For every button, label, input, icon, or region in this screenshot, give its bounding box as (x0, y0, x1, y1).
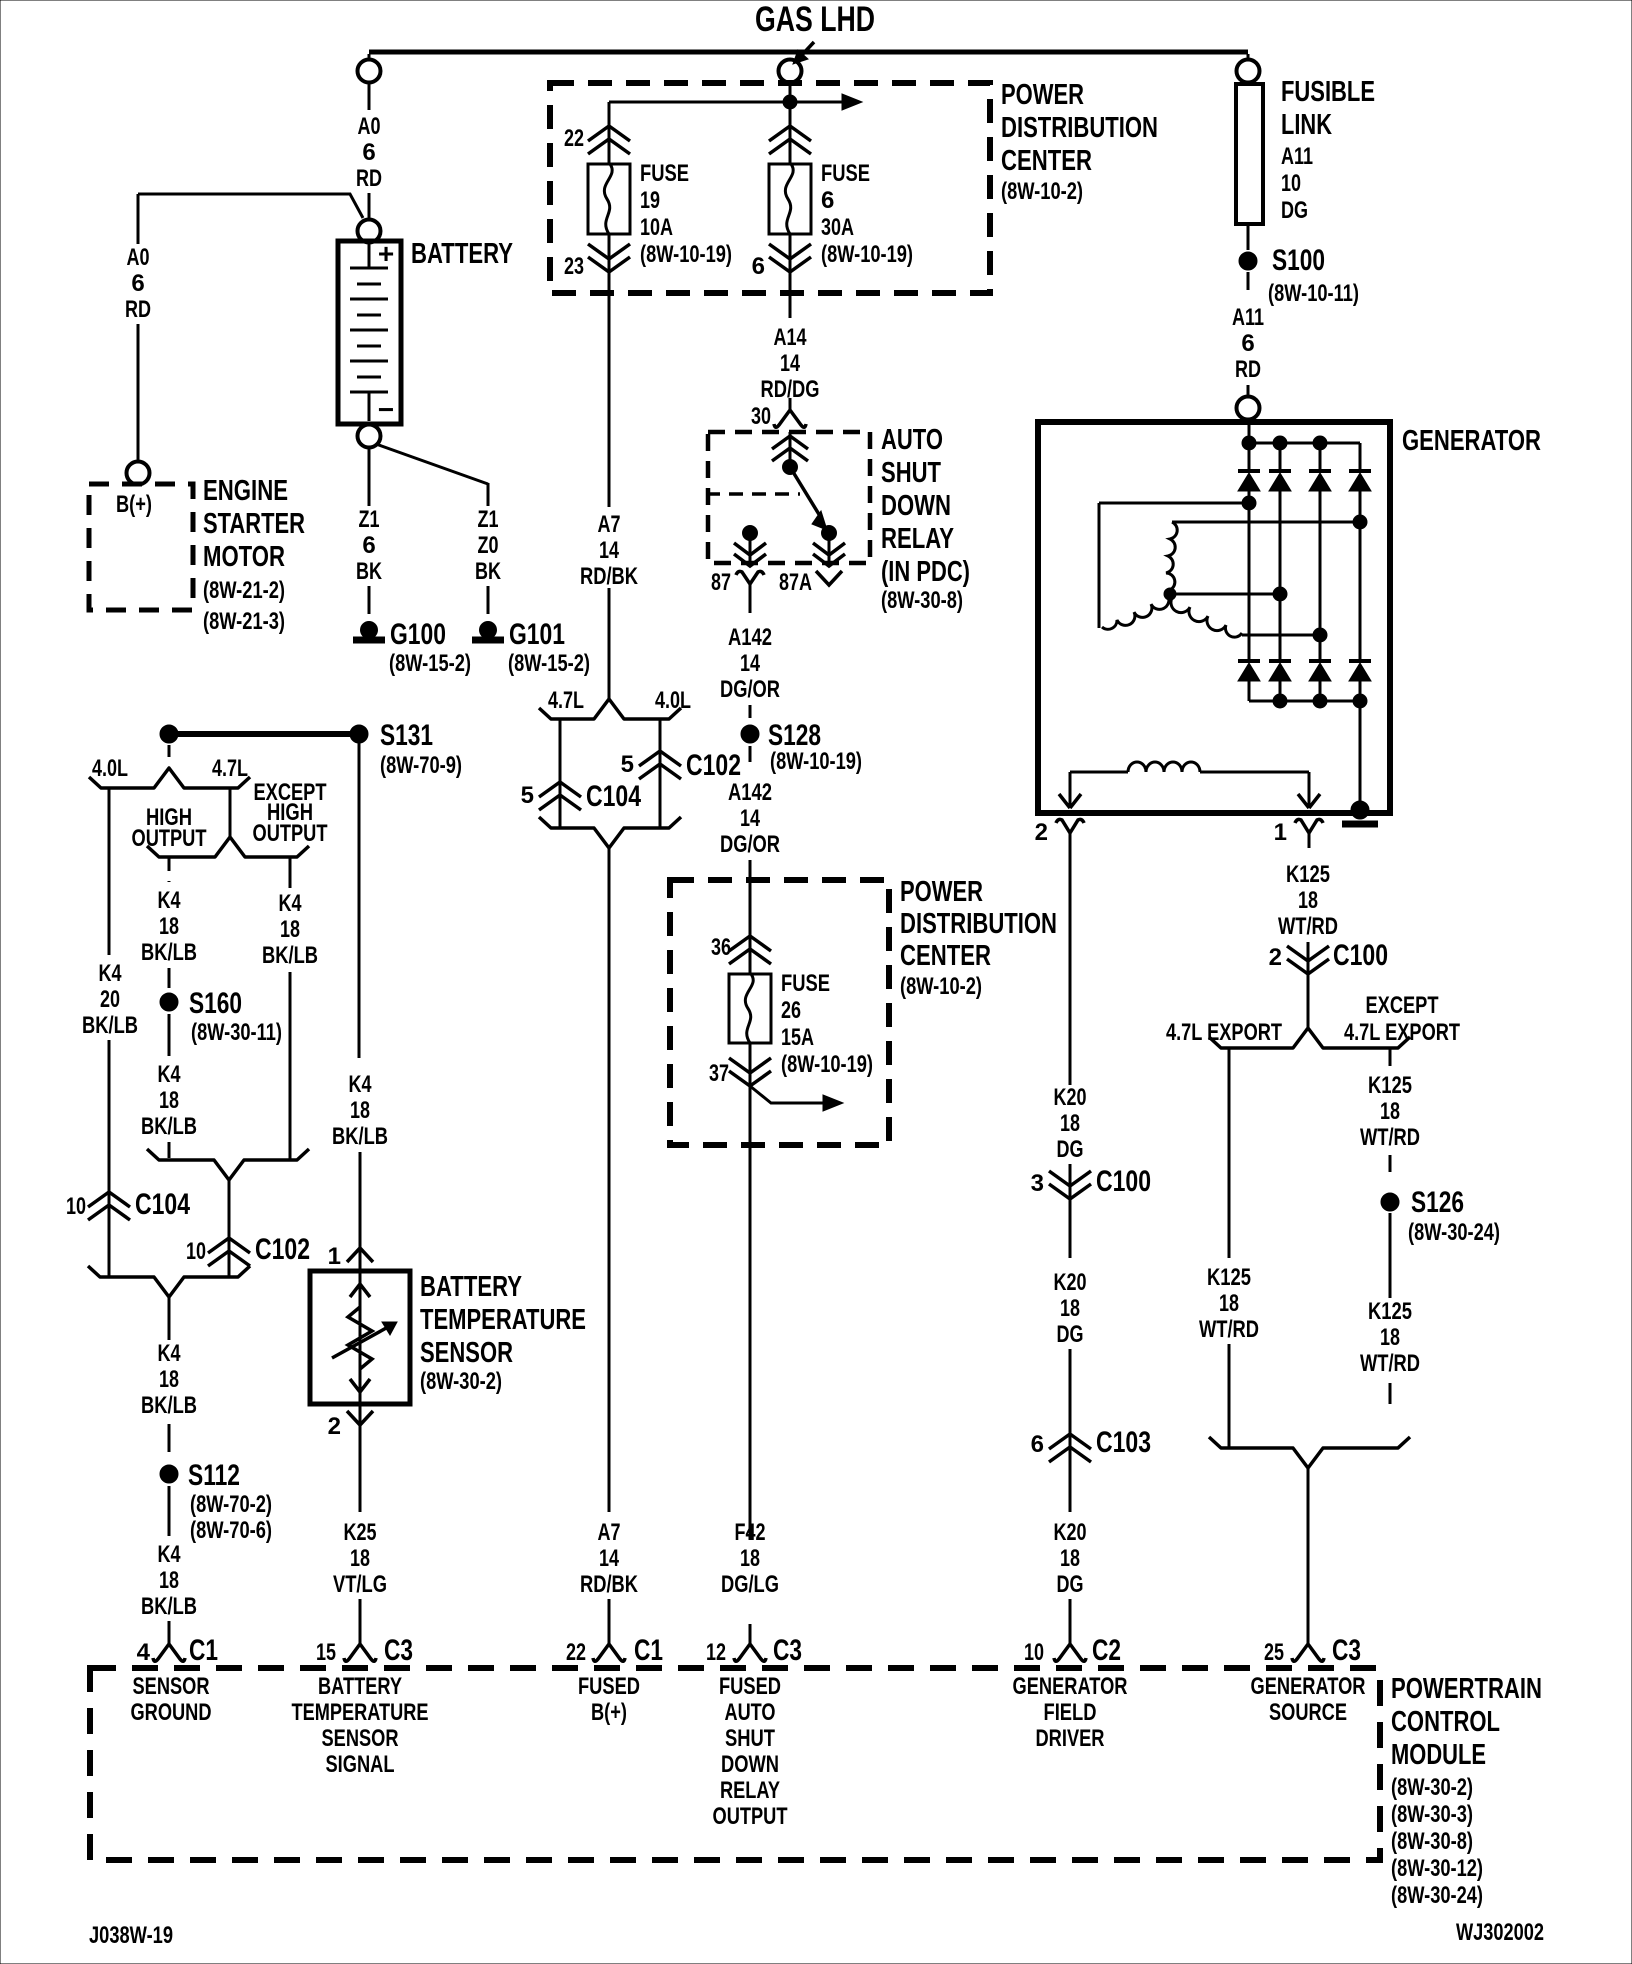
svg-text:(8W-30-2): (8W-30-2) (1391, 1774, 1473, 1801)
svg-text:SHUT: SHUT (881, 457, 941, 489)
svg-text:BATTERY: BATTERY (318, 1673, 402, 1700)
svg-text:BK/LB: BK/LB (82, 1012, 138, 1039)
svg-text:14: 14 (740, 650, 760, 677)
svg-text:OUTPUT: OUTPUT (132, 825, 207, 852)
svg-text:10A: 10A (640, 214, 673, 241)
svg-text:(IN PDC): (IN PDC) (881, 556, 970, 588)
svg-text:(8W-10-19): (8W-10-19) (781, 1051, 873, 1078)
svg-text:OUTPUT: OUTPUT (713, 1803, 788, 1830)
svg-text:18: 18 (1219, 1290, 1239, 1317)
svg-text:DG: DG (1281, 197, 1308, 224)
svg-text:14: 14 (599, 1545, 619, 1572)
svg-text:AUTO: AUTO (725, 1699, 776, 1726)
svg-text:10: 10 (186, 1238, 206, 1265)
svg-text:DG: DG (1057, 1571, 1084, 1598)
svg-text:S126: S126 (1411, 1186, 1464, 1219)
svg-text:C2: C2 (1092, 1634, 1121, 1667)
svg-text:CONTROL: CONTROL (1391, 1706, 1500, 1738)
svg-text:FUSED: FUSED (719, 1673, 781, 1700)
svg-text:A7: A7 (598, 511, 621, 538)
svg-text:SIGNAL: SIGNAL (326, 1751, 395, 1778)
svg-text:J038W-19: J038W-19 (89, 1922, 173, 1949)
svg-text:18: 18 (1380, 1324, 1400, 1351)
svg-text:C104: C104 (586, 780, 641, 813)
svg-text:C3: C3 (384, 1634, 413, 1667)
svg-text:4: 4 (137, 1639, 151, 1666)
svg-text:6: 6 (362, 532, 375, 559)
svg-text:DG/LG: DG/LG (721, 1571, 779, 1598)
svg-text:SENSOR: SENSOR (322, 1725, 399, 1752)
svg-text:(8W-30-12): (8W-30-12) (1391, 1855, 1483, 1882)
svg-text:WJ302002: WJ302002 (1456, 1919, 1544, 1946)
svg-text:STARTER: STARTER (203, 508, 305, 540)
svg-text:C3: C3 (1332, 1634, 1361, 1667)
svg-text:RD: RD (356, 165, 382, 192)
svg-text:A142: A142 (728, 624, 772, 651)
svg-text:GENERATOR: GENERATOR (1013, 1673, 1128, 1700)
svg-text:C104: C104 (135, 1188, 190, 1221)
svg-text:FUSED: FUSED (578, 1673, 640, 1700)
svg-text:(8W-10-2): (8W-10-2) (1001, 178, 1083, 205)
svg-text:BK/LB: BK/LB (141, 1392, 197, 1419)
svg-text:(8W-70-2): (8W-70-2) (190, 1491, 272, 1518)
svg-text:DOWN: DOWN (721, 1751, 779, 1778)
svg-text:(8W-30-11): (8W-30-11) (191, 1019, 282, 1046)
svg-text:18: 18 (1060, 1545, 1080, 1572)
svg-text:25: 25 (1264, 1639, 1284, 1666)
svg-text:POWER: POWER (900, 876, 983, 908)
svg-text:WT/RD: WT/RD (1360, 1124, 1420, 1151)
svg-text:C100: C100 (1333, 939, 1388, 972)
svg-text:DG: DG (1057, 1321, 1084, 1348)
svg-text:K4: K4 (279, 890, 302, 917)
svg-text:K125: K125 (1207, 1264, 1251, 1291)
svg-text:K4: K4 (349, 1071, 372, 1098)
svg-text:10: 10 (1024, 1639, 1044, 1666)
svg-text:K20: K20 (1054, 1519, 1087, 1546)
svg-text:CENTER: CENTER (1001, 145, 1092, 177)
svg-text:GAS LHD: GAS LHD (755, 0, 875, 39)
svg-text:(8W-15-2): (8W-15-2) (508, 650, 590, 677)
svg-text:A11: A11 (1232, 304, 1264, 331)
svg-text:BK/LB: BK/LB (141, 1113, 197, 1140)
svg-text:RD/BK: RD/BK (580, 1571, 639, 1598)
svg-text:(8W-10-19): (8W-10-19) (821, 241, 913, 268)
svg-text:(8W-30-8): (8W-30-8) (1391, 1828, 1473, 1855)
svg-text:4.0L: 4.0L (655, 687, 691, 714)
svg-text:K25: K25 (344, 1519, 377, 1546)
svg-text:MOTOR: MOTOR (203, 541, 285, 573)
svg-text:POWERTRAIN: POWERTRAIN (1391, 1673, 1542, 1705)
svg-text:WT/RD: WT/RD (1199, 1316, 1259, 1343)
svg-text:5: 5 (521, 782, 534, 809)
svg-text:6: 6 (821, 187, 834, 214)
svg-text:22: 22 (566, 1639, 586, 1666)
svg-text:SHUT: SHUT (725, 1725, 775, 1752)
svg-text:FIELD: FIELD (1044, 1699, 1097, 1726)
svg-text:1: 1 (328, 1243, 341, 1270)
svg-text:FUSE: FUSE (640, 160, 689, 187)
svg-text:A0: A0 (358, 113, 381, 140)
svg-text:18: 18 (350, 1545, 370, 1572)
svg-text:K125: K125 (1368, 1298, 1412, 1325)
svg-text:18: 18 (280, 916, 300, 943)
svg-text:BATTERY: BATTERY (420, 1271, 522, 1303)
svg-text:(8W-21-2): (8W-21-2) (203, 577, 285, 604)
svg-text:RD: RD (1235, 356, 1261, 383)
svg-text:Z0: Z0 (478, 532, 499, 559)
svg-text:GENERATOR: GENERATOR (1251, 1673, 1366, 1700)
svg-text:AUTO: AUTO (881, 424, 943, 456)
svg-text:18: 18 (159, 1567, 179, 1594)
svg-text:2: 2 (1269, 944, 1282, 971)
svg-text:(8W-30-24): (8W-30-24) (1391, 1882, 1483, 1909)
svg-text:S131: S131 (380, 719, 433, 752)
svg-text:(8W-10-19): (8W-10-19) (770, 748, 862, 775)
svg-text:K4: K4 (158, 1541, 181, 1568)
svg-text:Z1: Z1 (478, 506, 499, 533)
svg-text:FUSIBLE: FUSIBLE (1281, 76, 1375, 108)
svg-text:87A: 87A (779, 569, 812, 596)
svg-text:87: 87 (711, 569, 731, 596)
svg-text:19: 19 (640, 187, 660, 214)
svg-text:FUSE: FUSE (821, 160, 870, 187)
svg-text:K20: K20 (1054, 1084, 1087, 1111)
svg-text:LINK: LINK (1281, 109, 1332, 141)
svg-text:POWER: POWER (1001, 79, 1084, 111)
svg-text:12: 12 (706, 1639, 726, 1666)
svg-text:18: 18 (1060, 1295, 1080, 1322)
svg-text:14: 14 (740, 805, 760, 832)
svg-text:CENTER: CENTER (900, 940, 991, 972)
svg-text:18: 18 (740, 1545, 760, 1572)
svg-text:G101: G101 (509, 618, 565, 651)
svg-text:A14: A14 (774, 324, 807, 351)
svg-text:A11: A11 (1281, 143, 1313, 170)
svg-text:A0: A0 (127, 244, 150, 271)
svg-text:BK/LB: BK/LB (332, 1123, 388, 1150)
svg-text:DG/OR: DG/OR (720, 831, 780, 858)
svg-text:A142: A142 (728, 779, 772, 806)
svg-text:C1: C1 (634, 1634, 663, 1667)
svg-text:A7: A7 (598, 1519, 621, 1546)
svg-text:4.0L: 4.0L (92, 755, 128, 782)
svg-text:BK/LB: BK/LB (141, 1593, 197, 1620)
svg-text:(8W-30-8): (8W-30-8) (881, 587, 963, 614)
svg-text:4.7L: 4.7L (212, 755, 248, 782)
svg-text:C102: C102 (686, 749, 741, 782)
svg-text:18: 18 (159, 913, 179, 940)
svg-text:S160: S160 (189, 987, 242, 1020)
svg-text:DISTRIBUTION: DISTRIBUTION (1001, 112, 1158, 144)
svg-text:SENSOR: SENSOR (420, 1337, 513, 1369)
svg-text:VT/LG: VT/LG (333, 1571, 387, 1598)
svg-text:EXCEPT: EXCEPT (1366, 992, 1439, 1019)
svg-text:DISTRIBUTION: DISTRIBUTION (900, 908, 1057, 940)
svg-text:(8W-21-3): (8W-21-3) (203, 608, 285, 635)
svg-text:(8W-10-11): (8W-10-11) (1268, 280, 1359, 307)
svg-text:18: 18 (350, 1097, 370, 1124)
svg-text:OUTPUT: OUTPUT (253, 820, 328, 847)
svg-text:6: 6 (752, 253, 765, 280)
svg-text:2: 2 (1035, 819, 1048, 846)
svg-text:(8W-10-19): (8W-10-19) (640, 241, 732, 268)
svg-text:DG/OR: DG/OR (720, 676, 780, 703)
svg-text:18: 18 (1380, 1098, 1400, 1125)
svg-text:6: 6 (1241, 330, 1254, 357)
svg-text:(8W-70-6): (8W-70-6) (190, 1517, 272, 1544)
svg-text:WT/RD: WT/RD (1278, 913, 1338, 940)
svg-text:BATTERY: BATTERY (411, 238, 513, 270)
svg-text:B(+): B(+) (591, 1699, 627, 1726)
svg-text:4.7L: 4.7L (548, 687, 584, 714)
svg-text:(8W-15-2): (8W-15-2) (389, 650, 471, 677)
svg-text:6: 6 (1031, 1431, 1044, 1458)
svg-text:ENGINE: ENGINE (203, 475, 288, 507)
svg-text:Z1: Z1 (359, 506, 380, 533)
svg-text:18: 18 (159, 1087, 179, 1114)
svg-text:MODULE: MODULE (1391, 1739, 1486, 1771)
svg-text:26: 26 (781, 997, 801, 1024)
svg-text:36: 36 (711, 934, 731, 961)
svg-text:F42: F42 (735, 1519, 766, 1546)
svg-text:K4: K4 (158, 1061, 181, 1088)
svg-text:RELAY: RELAY (881, 523, 954, 555)
svg-text:K20: K20 (1054, 1269, 1087, 1296)
svg-text:K4: K4 (158, 1340, 181, 1367)
svg-text:TEMPERATURE: TEMPERATURE (420, 1304, 586, 1336)
svg-text:BK: BK (475, 558, 501, 585)
svg-text:BK: BK (356, 558, 382, 585)
svg-text:18: 18 (1060, 1110, 1080, 1137)
svg-text:2: 2 (328, 1413, 341, 1440)
svg-text:B(+): B(+) (116, 491, 152, 518)
svg-text:4.7L EXPORT: 4.7L EXPORT (1344, 1019, 1460, 1046)
svg-text:(8W-30-24): (8W-30-24) (1408, 1219, 1500, 1246)
svg-text:14: 14 (780, 350, 800, 377)
svg-text:30A: 30A (821, 214, 854, 241)
svg-text:C3: C3 (773, 1634, 802, 1667)
svg-text:18: 18 (1298, 887, 1318, 914)
svg-text:1: 1 (1274, 819, 1287, 846)
svg-text:K125: K125 (1368, 1072, 1412, 1099)
svg-text:(8W-30-3): (8W-30-3) (1391, 1801, 1473, 1828)
svg-text:C102: C102 (255, 1233, 310, 1266)
svg-text:15: 15 (316, 1639, 336, 1666)
svg-text:10: 10 (66, 1193, 86, 1220)
svg-text:DG: DG (1057, 1136, 1084, 1163)
svg-text:−: − (378, 394, 394, 425)
svg-text:FUSE: FUSE (781, 970, 830, 997)
svg-text:3: 3 (1031, 1170, 1044, 1197)
svg-text:(8W-70-9): (8W-70-9) (380, 752, 462, 779)
svg-text:K4: K4 (158, 887, 181, 914)
svg-text:S112: S112 (188, 1459, 240, 1492)
svg-text:30: 30 (751, 403, 771, 430)
svg-text:G100: G100 (390, 618, 446, 651)
svg-text:K4: K4 (99, 960, 122, 987)
svg-text:22: 22 (564, 125, 584, 152)
svg-text:(8W-30-2): (8W-30-2) (420, 1368, 502, 1395)
svg-text:GROUND: GROUND (131, 1699, 212, 1726)
svg-text:RD/BK: RD/BK (580, 563, 639, 590)
svg-text:DOWN: DOWN (881, 490, 951, 522)
svg-text:S100: S100 (1272, 244, 1325, 277)
svg-text:15A: 15A (781, 1024, 814, 1051)
svg-text:RELAY: RELAY (720, 1777, 780, 1804)
svg-text:C100: C100 (1096, 1165, 1151, 1198)
svg-text:K125: K125 (1286, 861, 1330, 888)
svg-text:TEMPERATURE: TEMPERATURE (292, 1699, 429, 1726)
svg-text:DRIVER: DRIVER (1036, 1725, 1105, 1752)
svg-text:BK/LB: BK/LB (141, 939, 197, 966)
svg-text:23: 23 (564, 253, 584, 280)
svg-text:WT/RD: WT/RD (1360, 1350, 1420, 1377)
svg-text:SOURCE: SOURCE (1269, 1699, 1347, 1726)
svg-text:10: 10 (1281, 170, 1301, 197)
svg-text:18: 18 (159, 1366, 179, 1393)
svg-text:C103: C103 (1096, 1426, 1151, 1459)
svg-text:4.7L EXPORT: 4.7L EXPORT (1166, 1019, 1282, 1046)
svg-text:6: 6 (131, 270, 144, 297)
svg-text:RD: RD (125, 296, 151, 323)
svg-text:GENERATOR: GENERATOR (1402, 425, 1541, 457)
svg-text:20: 20 (100, 986, 120, 1013)
svg-text:BK/LB: BK/LB (262, 942, 318, 969)
svg-text:(8W-10-2): (8W-10-2) (900, 973, 982, 1000)
svg-text:6: 6 (362, 139, 375, 166)
svg-text:C1: C1 (189, 1634, 218, 1667)
svg-text:5: 5 (621, 751, 634, 778)
svg-text:37: 37 (709, 1060, 729, 1087)
svg-text:14: 14 (599, 537, 619, 564)
svg-text:SENSOR: SENSOR (133, 1673, 210, 1700)
svg-text:+: + (378, 238, 394, 269)
